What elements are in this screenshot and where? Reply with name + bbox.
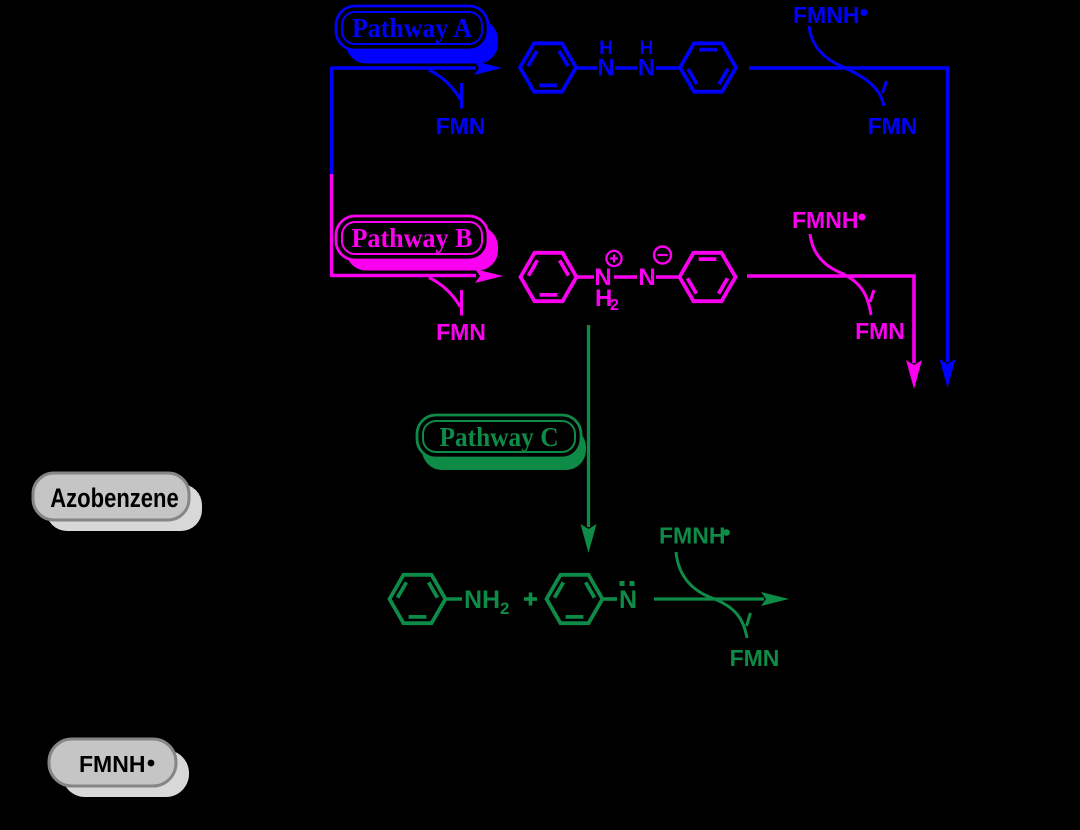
pathway C product arrow [654, 592, 789, 606]
aniline NH2 label [464, 586, 509, 618]
FMN label, pathway B right [855, 318, 905, 344]
svg-text:FMN: FMN [436, 319, 486, 345]
bond ring to nitrene N [603, 597, 618, 601]
svg-text:Pathway A: Pathway A [352, 13, 472, 43]
hydrazobenzene: N1-N2 bond [615, 66, 637, 70]
svg-text:2: 2 [500, 599, 509, 618]
svg-text:FMN: FMN [730, 645, 780, 671]
wire: pathway C vertical stem [587, 325, 590, 527]
svg-text:H: H [640, 38, 654, 59]
svg-text:Pathway B: Pathway B [352, 223, 473, 253]
aniline phenyl ring [390, 575, 446, 623]
svg-text:N: N [638, 264, 655, 291]
svg-text:Azobenzene: Azobenzene [50, 483, 179, 513]
svg-text:FMNH: FMNH [79, 751, 145, 777]
FMN label below pathway B arrow [436, 319, 486, 345]
hydrazobenzene: right phenyl ring [680, 43, 736, 91]
svg-text:FMNH: FMNH [659, 523, 725, 549]
N2 minus-charged [638, 247, 671, 292]
pathway C label box [417, 415, 586, 470]
hydrazobenzene: bond N2 to right ring [656, 66, 680, 70]
FMNH/FMN exchange S-curve, pathway A right [809, 26, 887, 106]
FMN release curve, pathway B [429, 278, 462, 316]
pathway A product elbow arrow [749, 68, 956, 388]
svg-text:FMN: FMN [436, 113, 486, 139]
FMNH radical label, pathway B right [792, 207, 866, 233]
FMN release curve, pathway A [429, 70, 462, 109]
plus sign [524, 593, 537, 606]
azobenzene grey label box [33, 473, 202, 531]
N1-N2 bond (pathway B) [614, 275, 637, 279]
svg-text:2: 2 [610, 297, 619, 314]
aniline bond ring to NH2 [446, 597, 463, 601]
svg-text:FMNH: FMNH [792, 207, 858, 233]
pathway B reaction arrow [332, 269, 504, 283]
svg-text:N: N [619, 586, 637, 614]
svg-text:H: H [599, 38, 613, 59]
pathway A reaction arrow [332, 61, 503, 75]
FMNH radical label, pathway A right [793, 2, 868, 28]
FMNH radical label, pathway C [659, 523, 730, 549]
hydrazobenzene: N2 with H [638, 38, 655, 82]
pathway A label box [336, 6, 498, 64]
svg-text:Pathway C: Pathway C [440, 422, 559, 452]
FMN label below pathway A arrow [436, 113, 486, 139]
hydrazobenzene: N1 with H [597, 38, 614, 82]
hydrazobenzene: left phenyl ring [520, 43, 576, 91]
svg-text:FMN: FMN [868, 113, 918, 139]
wire: azobenzene branch vertical (magenta lower segment) [330, 174, 333, 277]
FMNH/FMN exchange S-curve, pathway C [676, 552, 751, 638]
pathway B label box [336, 216, 498, 271]
nitrene N with lone pair dots [619, 581, 637, 614]
hydrazobenzene: bond ring to N1 [576, 66, 597, 70]
wire: azobenzene branch vertical (blue upper segment) [330, 67, 333, 174]
N1 H2 plus-charged [594, 251, 621, 314]
FMNH/FMN exchange S-curve, pathway B right [810, 234, 874, 315]
hydrazobenzene cation: left phenyl ring [521, 253, 577, 301]
bond ring to N1 (pathway B) [577, 275, 595, 279]
svg-text:FMN: FMN [855, 318, 905, 344]
right phenyl ring (pathway B) [680, 253, 736, 301]
FMN label, pathway C [730, 645, 780, 671]
bond N2 to right ring (pathway B) [656, 275, 680, 279]
svg-text:FMNH: FMNH [793, 2, 859, 28]
nitrene phenyl ring [547, 575, 603, 623]
FMNH radical grey label box [49, 739, 189, 797]
svg-text:NH: NH [464, 586, 500, 614]
pathway C down arrowhead [581, 524, 597, 553]
FMN label, pathway A right [868, 113, 918, 139]
pathway B product elbow arrow [747, 276, 922, 389]
